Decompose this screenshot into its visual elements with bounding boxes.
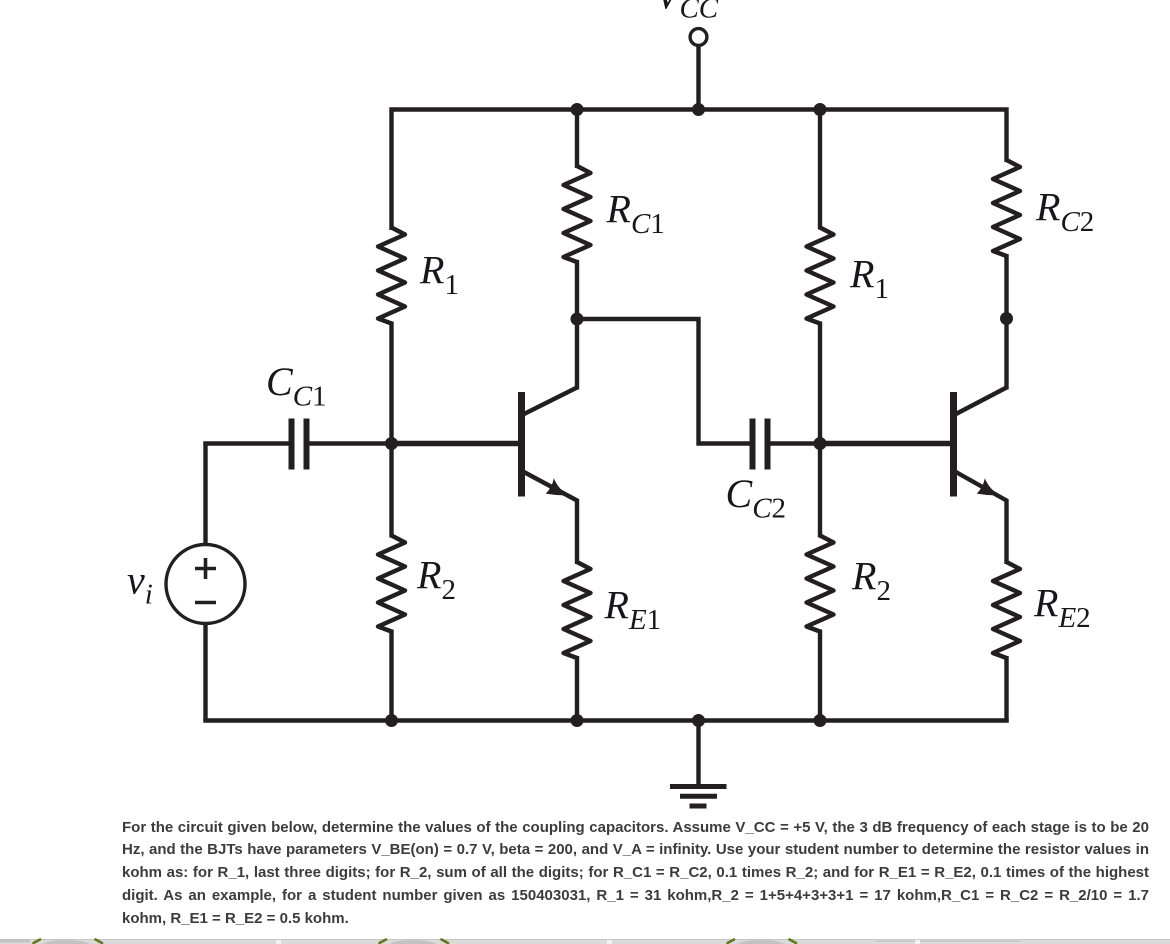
svg-text:RE2: RE2 (1033, 581, 1091, 635)
VCC terminal circle (690, 29, 707, 46)
transistor Q2 base bar (950, 392, 957, 497)
svg-text:VCC: VCC (655, 0, 719, 25)
node base2 (814, 437, 827, 450)
node bottom gnd (692, 714, 705, 727)
ground (696, 721, 700, 787)
Q2 base wire (820, 441, 950, 446)
capacitor CC1 right wire (309, 441, 392, 445)
svg-text:CC2: CC2 (726, 471, 787, 525)
node collector1 (571, 313, 584, 326)
top rail wire (392, 110, 1007, 231)
stage2 divider top wire (818, 110, 822, 230)
source vi circle (166, 545, 245, 624)
node bottom r2-2 (814, 714, 827, 727)
resistor R1 stage1 (378, 228, 405, 324)
Q2 collector lead (955, 388, 1007, 415)
resistor RE2 (993, 562, 1020, 658)
node bottom r2-1 (385, 714, 398, 727)
VCC stem wire (696, 47, 700, 110)
resistor RC2 (993, 160, 1020, 256)
svg-text:R1: R1 (419, 248, 459, 302)
node top rail left (571, 103, 584, 116)
source vi wires (203, 444, 207, 547)
svg-text:RC2: RC2 (1035, 185, 1094, 239)
resistor R2 stage1 (378, 536, 405, 632)
capacitor CC1 plates (289, 419, 295, 470)
problem text paragraph (122, 817, 1149, 931)
resistor RE1 (564, 562, 591, 658)
wire RC1 bottom to collector junction (575, 260, 579, 390)
resistor RC1 (564, 166, 591, 262)
Q2 emitter lead (955, 472, 1007, 565)
wire divider1 bottom (389, 630, 393, 721)
wire divider1 mid (389, 322, 393, 538)
bottom rail wire (203, 718, 1008, 722)
interstage link wire (577, 319, 751, 444)
svg-text:vi: vi (127, 558, 153, 611)
wire RC1 top (575, 110, 579, 169)
Q1 collector lead (523, 388, 577, 415)
node top rail vcc (692, 103, 705, 116)
svg-text:RC1: RC1 (606, 187, 665, 241)
resistor R1 stage2 (807, 228, 834, 324)
wire RE1 bottom (575, 656, 579, 721)
node base1 (385, 437, 398, 450)
plus sign (195, 567, 216, 571)
svg-text:R2: R2 (851, 554, 891, 608)
capacitor CC2 right wire (770, 441, 820, 445)
node bottom re1 (571, 714, 584, 727)
svg-text:RE1: RE1 (604, 583, 662, 637)
transistor Q1 base bar (518, 392, 525, 497)
stage2 divider mid wire (818, 322, 822, 538)
node collector2 (1000, 312, 1013, 325)
resistor R2 stage2 (807, 536, 834, 632)
node top rail right (814, 103, 827, 116)
Q1 emitter arrowhead (546, 478, 569, 495)
Q1 emitter lead (523, 472, 577, 565)
svg-text:CC1: CC1 (266, 359, 327, 413)
capacitor CC2 plates (750, 419, 756, 470)
Q2 emitter arrowhead (977, 478, 1000, 495)
wire RC2 bottom / collector vertical (1004, 254, 1008, 390)
Q1 base wire (392, 441, 519, 446)
svg-text:R2: R2 (416, 553, 456, 607)
minus sign (195, 601, 216, 605)
capacitor CC1 left wire (203, 441, 289, 445)
svg-text:R1: R1 (849, 252, 889, 306)
wire RE2 bottom (1004, 656, 1008, 723)
stage2 divider bottom wire (818, 630, 822, 721)
bottom strip (0, 928, 1170, 944)
